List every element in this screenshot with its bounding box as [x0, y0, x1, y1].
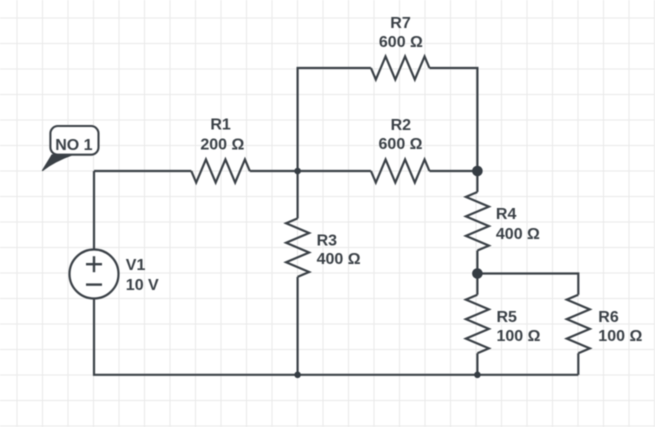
svg-text:R7: R7 [390, 15, 411, 32]
svg-text:10 V: 10 V [126, 277, 159, 294]
svg-text:200 Ω: 200 Ω [200, 136, 244, 153]
svg-text:R5: R5 [497, 309, 518, 326]
svg-text:NO 1: NO 1 [55, 137, 92, 154]
svg-text:R4: R4 [496, 206, 517, 223]
svg-text:100 Ω: 100 Ω [497, 328, 541, 345]
svg-text:400 Ω: 400 Ω [317, 251, 361, 268]
svg-text:400 Ω: 400 Ω [496, 226, 540, 243]
svg-text:600 Ω: 600 Ω [379, 136, 423, 153]
svg-text:R2: R2 [391, 117, 412, 134]
svg-text:100 Ω: 100 Ω [598, 328, 642, 345]
svg-text:R1: R1 [210, 117, 231, 134]
svg-text:V1: V1 [126, 257, 146, 274]
svg-text:R3: R3 [317, 232, 338, 249]
svg-text:R6: R6 [598, 309, 619, 326]
svg-text:600 Ω: 600 Ω [379, 34, 423, 51]
